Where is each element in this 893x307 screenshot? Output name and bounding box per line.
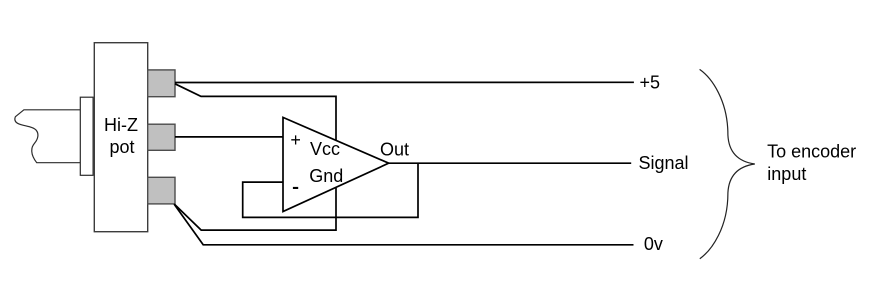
wire feedback (output to - input) <box>243 163 418 217</box>
op-amp - input label <box>293 187 298 189</box>
op-amp U1 (triangle) <box>283 117 389 211</box>
pot shaft mount rectangle <box>80 97 93 175</box>
svg-text:Signal: Signal <box>639 153 689 173</box>
potentiometer body (Hi-Z pot) <box>94 43 147 232</box>
svg-text:To encoder: To encoder <box>767 142 856 162</box>
brace (to encoder input) <box>700 69 755 258</box>
svg-text:Hi-Z: Hi-Z <box>104 115 138 135</box>
svg-text:pot: pot <box>109 137 134 157</box>
wire Gnd return (op-amp Gnd pin to terminal 3) <box>174 188 336 230</box>
terminal 2 (middle, wiper) <box>148 124 175 150</box>
label Hi-Z pot <box>104 115 138 157</box>
svg-text:+: + <box>290 130 301 150</box>
svg-text:0v: 0v <box>644 234 663 254</box>
svg-text:+5: +5 <box>640 73 661 93</box>
terminal 3 (bottom, 0v) <box>148 177 175 204</box>
wire wiper to + input <box>175 136 283 138</box>
svg-text:Vcc: Vcc <box>310 139 340 159</box>
wire Vcc feed (terminal 1 to op-amp Vcc pin) <box>175 84 336 140</box>
shaft break symbol (torn wire to pot shaft) <box>15 110 80 163</box>
svg-text:Gnd: Gnd <box>309 166 343 186</box>
svg-text:input: input <box>767 164 806 184</box>
wire +5 rail <box>175 81 634 83</box>
annotation To encoder input <box>767 142 856 184</box>
svg-text:Out: Out <box>380 140 409 160</box>
wire 0v rail <box>174 204 633 245</box>
terminal 1 (top, +5) <box>148 70 175 97</box>
wire output to Signal <box>389 162 632 164</box>
